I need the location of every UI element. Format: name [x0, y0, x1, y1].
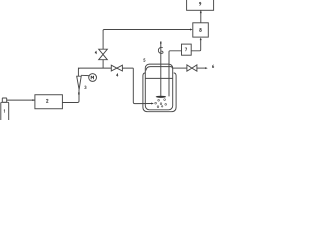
valve V1 vertical	[99, 49, 108, 60]
riser wire with valve V1	[102, 30, 104, 68]
label 4 (valve V2)	[116, 74, 118, 77]
signal line to box 8	[103, 29, 193, 31]
box 9	[187, 0, 214, 10]
label 7	[185, 48, 187, 51]
label 5	[144, 59, 145, 62]
box 2	[35, 95, 63, 109]
node at funnel corner	[78, 68, 79, 69]
inner rim second line	[146, 67, 172, 71]
stirrer shaft	[160, 42, 162, 96]
outlet arrow	[197, 67, 208, 69]
feed wire into vessel bottom	[133, 68, 154, 104]
gas cylinder 1	[1, 98, 9, 121]
label 2	[46, 99, 48, 102]
outlet wire right	[172, 68, 187, 69]
box 7	[182, 44, 192, 55]
label 8	[200, 28, 202, 31]
label 9	[199, 2, 201, 5]
impeller	[156, 96, 166, 98]
wire box7 to box8 riser	[191, 38, 202, 51]
liquid level line	[145, 77, 172, 79]
label 4 (valve V1)	[95, 51, 97, 54]
wire cylinder to box2	[7, 99, 35, 101]
label 3	[85, 86, 87, 89]
label 1	[3, 110, 6, 113]
box 8	[193, 23, 209, 37]
valve V3 horizontal	[187, 65, 197, 71]
gauge M	[81, 74, 97, 82]
feed line (funnel top to drop corner)	[78, 68, 133, 76]
probe wire from box7 into vessel	[169, 51, 182, 97]
vessel 5 inner beaker	[145, 64, 172, 110]
connector box8 to box9	[200, 10, 202, 22]
label 6	[212, 65, 213, 68]
funnel 3	[77, 76, 82, 94]
bubbles	[155, 99, 167, 108]
valve V2 horizontal	[111, 65, 122, 71]
stirrer motor curl	[158, 47, 163, 53]
wire box2 to funnel stem	[62, 90, 79, 103]
outer jacket	[143, 73, 176, 112]
